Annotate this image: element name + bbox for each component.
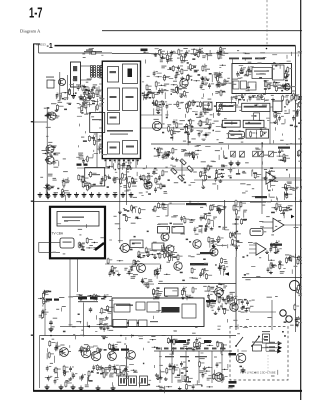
wire page edge xyxy=(300,0,302,400)
component cluster decoupling field xyxy=(78,171,110,191)
wire op-amp output xyxy=(276,177,300,179)
signal arrow output 3 xyxy=(277,349,281,354)
component cluster IC right pins xyxy=(142,84,152,100)
arrow left into bus xyxy=(225,272,230,276)
label dark TP201 xyxy=(141,49,148,52)
ground xyxy=(88,95,93,100)
ground xyxy=(236,161,241,166)
junction xyxy=(83,335,85,337)
label dark xyxy=(229,353,237,355)
annotation texture xyxy=(50,79,102,105)
component cluster module lower xyxy=(264,81,290,95)
delay line DL201 xyxy=(90,113,105,133)
IC U201 pin number xyxy=(114,160,116,162)
module A207b PLL xyxy=(228,131,244,138)
signal label luminance xyxy=(186,203,206,205)
ground xyxy=(82,192,87,197)
component cluster xyxy=(153,288,163,299)
module A201 block osc xyxy=(233,81,239,89)
svg-text:1-7: 1-7 xyxy=(29,5,43,21)
pin label xyxy=(84,164,88,166)
component cluster xyxy=(198,118,215,138)
wire bottom bus xyxy=(154,350,232,352)
wire right frame upper xyxy=(294,46,296,200)
filter Z202 xyxy=(85,168,105,187)
component cluster xyxy=(186,100,226,117)
output label xyxy=(269,342,275,343)
signal arrow output 1 xyxy=(278,341,282,346)
component cluster xyxy=(200,164,213,188)
wire IC left pin stub xyxy=(99,73,102,75)
component cluster xyxy=(113,173,143,189)
svg-text:TV CBA: TV CBA xyxy=(52,232,64,236)
svg-text:-1: -1 xyxy=(47,43,53,50)
ground xyxy=(53,192,58,197)
module A201 block mixer xyxy=(273,65,285,80)
component cluster xyxy=(137,247,151,259)
value label xyxy=(180,356,189,357)
wire op-amp out xyxy=(284,224,302,226)
resistor pack RP201 xyxy=(253,345,262,351)
filter Z205 xyxy=(152,243,164,250)
IC U201 pin number xyxy=(128,160,130,162)
transistor Q201 xyxy=(58,78,65,85)
component cluster in oscillator xyxy=(250,130,267,139)
annotation texture xyxy=(113,334,156,387)
wire xyxy=(66,75,68,100)
component cluster input filter xyxy=(79,87,104,106)
signal arrow output 2 xyxy=(278,345,282,350)
ground xyxy=(49,327,54,332)
capacitor pack C232 xyxy=(119,376,127,386)
component cluster xyxy=(39,309,49,319)
transistor Q224 xyxy=(236,353,246,363)
wire to IC pin 1 xyxy=(101,63,104,65)
annotation texture xyxy=(77,102,107,159)
filter Z204 xyxy=(172,227,184,234)
trimmer capacitor CT203 xyxy=(253,151,258,157)
component cluster xyxy=(180,213,217,227)
IC U201 output label xyxy=(126,146,134,148)
photo sensor glyph 2 xyxy=(264,339,268,341)
transistor Q222 xyxy=(215,373,223,381)
component cluster xyxy=(156,383,213,393)
module A207 block 3 xyxy=(182,304,196,318)
photo sensor U202 xyxy=(263,334,270,343)
ground xyxy=(59,385,64,390)
frame tick label 3 xyxy=(31,335,34,336)
wire xyxy=(171,336,173,352)
IC U201 sound label xyxy=(110,147,117,149)
component cluster labels under module xyxy=(231,93,302,104)
IC U201 part number label xyxy=(107,130,133,132)
label dark xyxy=(78,297,87,299)
annotation texture xyxy=(41,292,75,378)
wire into AV box xyxy=(70,296,112,298)
op-amp IC202 AFC xyxy=(266,172,276,184)
component cluster xyxy=(295,284,304,296)
wire IC left pin stub xyxy=(99,89,102,91)
wire xyxy=(126,168,128,206)
ground xyxy=(105,192,110,197)
component cluster xyxy=(282,183,298,200)
ground xyxy=(46,194,51,199)
module A201 block VIF xyxy=(252,68,272,79)
IC U201 block video amp xyxy=(123,88,138,111)
ground xyxy=(241,368,246,373)
filter Z203 label xyxy=(158,224,168,225)
wire right frame lower xyxy=(294,200,296,332)
transformer T201 primary xyxy=(90,65,92,77)
component cluster xyxy=(189,267,212,280)
resistor pack label xyxy=(252,342,262,343)
svg-text:PE-4 LYNC SIG 2.5D 4 TUBE: PE-4 LYNC SIG 2.5D 4 TUBE xyxy=(240,371,276,375)
wire xyxy=(59,72,61,100)
photo sensor glyph xyxy=(264,336,268,338)
resistor R201 xyxy=(90,52,96,54)
module A205 label xyxy=(224,122,237,124)
component cluster bottom rows xyxy=(155,361,228,383)
ground xyxy=(96,386,101,391)
component cluster xyxy=(63,365,78,388)
value label on bus xyxy=(196,348,201,350)
wire drop from module 2 xyxy=(77,259,79,293)
component cluster xyxy=(112,364,137,376)
component cluster xyxy=(229,232,241,251)
ground xyxy=(113,192,118,197)
label row xyxy=(78,301,98,302)
wire xyxy=(167,204,169,216)
label dark xyxy=(270,244,282,246)
wire xyxy=(270,106,273,108)
wire antenna input xyxy=(39,52,112,54)
component cluster detector parts xyxy=(152,81,189,99)
module A207 block 2 xyxy=(147,302,159,312)
transistor Q212 xyxy=(166,245,174,253)
wire top rule xyxy=(102,30,302,32)
component cluster xyxy=(81,101,104,114)
IC U201 pin number xyxy=(132,160,134,162)
deflection coil circle xyxy=(290,281,300,291)
component cluster xyxy=(97,318,112,332)
IC U201 sub label xyxy=(110,134,128,135)
wire left frame xyxy=(33,44,35,392)
component cluster xyxy=(118,205,145,222)
wire IC left pin stub xyxy=(99,143,102,145)
wire IC pin xyxy=(117,159,119,168)
wire IC left pin stub xyxy=(99,77,102,79)
wire IC left pin stub xyxy=(99,69,102,71)
wire xyxy=(44,298,46,336)
SAW filter label xyxy=(84,51,102,52)
wire IF link xyxy=(112,53,160,55)
IC U201 block LNC xyxy=(108,67,119,83)
component cluster xyxy=(214,165,227,183)
SAW filter electrode glyph 2 xyxy=(73,76,77,81)
wire vertical feed upper xyxy=(235,214,237,257)
component cluster xyxy=(42,149,60,166)
annotation texture xyxy=(108,160,153,198)
annotation texture xyxy=(230,148,303,200)
IC U201 pin number xyxy=(105,160,107,162)
label dark xyxy=(46,299,52,301)
wire xyxy=(69,297,71,327)
annotation texture xyxy=(82,48,103,58)
component cluster xyxy=(181,287,197,301)
IC U201 AFT label xyxy=(110,117,117,119)
annotation texture xyxy=(153,99,230,147)
wire xyxy=(269,107,271,144)
transistor Q221 xyxy=(127,351,136,360)
transistor Q207 xyxy=(144,181,152,189)
ground xyxy=(45,192,50,197)
component cluster xyxy=(294,304,302,327)
wire lower right bus xyxy=(242,277,302,279)
wire op-amp input xyxy=(262,221,273,223)
wire input feed xyxy=(39,241,60,243)
wire IF link segment 3 xyxy=(190,53,212,55)
module A207 title xyxy=(116,305,133,306)
resistor R201 value xyxy=(86,50,93,51)
wire xyxy=(141,127,211,129)
wire SAW to transformer lower xyxy=(81,79,92,81)
capacitor C230 xyxy=(49,320,52,325)
wire IF link segment 2 xyxy=(165,53,185,55)
component cluster xyxy=(139,174,153,189)
coil can label xyxy=(132,243,141,244)
transistor Q217 xyxy=(60,348,69,357)
wire IC left pin stub xyxy=(99,83,102,85)
ground xyxy=(111,386,116,391)
wire drop xyxy=(171,351,173,383)
wire drop xyxy=(185,351,187,383)
wire drop xyxy=(159,351,161,383)
shielded module A206 outline xyxy=(50,207,105,258)
component cluster xyxy=(79,343,117,354)
resonator X202 xyxy=(250,229,263,236)
value label on bus xyxy=(164,348,169,350)
annotation texture xyxy=(237,331,286,377)
module A203 band decoder xyxy=(216,102,235,111)
delay line label xyxy=(92,119,102,120)
wire xyxy=(158,283,236,285)
wire drop xyxy=(211,351,213,383)
control VR201 xyxy=(47,80,54,88)
wire xyxy=(96,133,98,168)
op-amp IC203 xyxy=(273,218,284,232)
wire xyxy=(83,303,85,336)
IC U201 IF processor outline xyxy=(102,61,140,158)
component cluster xyxy=(45,366,61,385)
module A207 block xyxy=(136,302,145,310)
arrow in module 2 xyxy=(137,322,139,324)
wire IC pin xyxy=(105,159,107,168)
wire stub 3 xyxy=(249,252,256,254)
IC U201 block detector xyxy=(123,64,138,84)
wire SAW ground lead xyxy=(73,87,75,94)
component cluster xyxy=(45,104,64,118)
wire stub 2 xyxy=(249,248,256,250)
wire xyxy=(141,114,162,116)
module A206 inner label xyxy=(62,217,84,218)
coil can L202 xyxy=(130,240,143,248)
capacitor pack C233 xyxy=(129,376,137,386)
SAW filter electrode glyph xyxy=(73,66,77,71)
annotation texture xyxy=(269,181,305,198)
control VR201 label xyxy=(46,77,54,78)
component cluster xyxy=(141,278,154,289)
module A201 block osc 2 xyxy=(241,81,247,89)
wire input drop xyxy=(38,44,40,53)
wire AV return xyxy=(60,325,112,327)
module A207 mute block 3 xyxy=(139,320,148,327)
frame tick label xyxy=(31,121,34,122)
annotation texture xyxy=(234,196,304,280)
crystal oscillator X204 xyxy=(246,129,269,138)
module A201 tuner unit outline xyxy=(232,64,292,94)
wire xyxy=(38,242,40,252)
filter Z203 comb xyxy=(158,227,170,234)
crystal X201 xyxy=(203,102,212,110)
wire IC left pin stub xyxy=(99,103,102,105)
buffer block xyxy=(254,113,260,120)
label xyxy=(255,196,267,198)
wire SAW to transformer xyxy=(81,65,92,67)
transistor Q219 xyxy=(91,351,101,361)
transformer T202 primary xyxy=(97,65,99,77)
IC U201 pin number xyxy=(109,160,111,162)
wire IF link segment 4 xyxy=(216,52,302,54)
ground xyxy=(129,192,134,197)
dashed module A210 sync output xyxy=(230,327,288,381)
module A201 block label xyxy=(254,71,269,72)
transistor Q213 xyxy=(193,240,201,248)
value label on bus xyxy=(212,348,217,350)
wire xyxy=(46,108,48,196)
annotation texture xyxy=(76,300,113,376)
ground xyxy=(71,385,76,390)
component cluster mid row xyxy=(156,147,227,161)
component cluster xyxy=(167,251,183,262)
transformer T202 secondary xyxy=(100,65,102,77)
component cluster op-amp feedback xyxy=(271,203,292,219)
output label xyxy=(269,350,275,351)
component cluster xyxy=(232,200,247,225)
connector label CN202 xyxy=(242,58,252,60)
wire supply bus xyxy=(194,179,302,181)
wire bus segment xyxy=(77,167,110,169)
arrow in module xyxy=(127,322,129,324)
component cluster xyxy=(218,257,228,275)
component cluster IC decoupling xyxy=(107,161,133,170)
wire drop from module xyxy=(69,259,71,297)
component cluster xyxy=(107,258,123,277)
wire xyxy=(224,200,226,230)
wire IC pin xyxy=(111,159,113,168)
IC U201 block output xyxy=(123,141,138,155)
module A207b label xyxy=(230,134,242,135)
component cluster inside module xyxy=(78,237,98,250)
wire input feed 2 xyxy=(39,251,60,253)
IC U202 label xyxy=(244,106,267,108)
ground xyxy=(74,192,79,197)
component cluster xyxy=(229,167,261,179)
annotation texture xyxy=(233,296,293,329)
component cluster xyxy=(153,169,168,194)
IC U202 control xyxy=(242,103,270,111)
wire dashed internal xyxy=(267,355,269,374)
value label on bus xyxy=(172,348,177,350)
module A205 prescaler xyxy=(222,120,240,127)
wire vertical feed xyxy=(235,257,237,330)
wire audio bus xyxy=(40,335,237,337)
resistor R202 xyxy=(68,89,70,95)
module A203 label xyxy=(219,105,234,107)
ground xyxy=(121,192,126,197)
trimmer capacitor CT201 xyxy=(231,151,236,157)
component cluster sync knot xyxy=(225,292,241,307)
transistor Q220 xyxy=(108,352,117,361)
component cluster xyxy=(149,245,169,259)
wire xyxy=(236,106,242,108)
transistor Q208 xyxy=(152,121,161,130)
label dark xyxy=(229,381,237,384)
component cluster xyxy=(79,374,93,387)
module A206 inner sublabel xyxy=(64,220,80,221)
component cluster xyxy=(152,202,168,212)
label dark xyxy=(229,385,235,387)
component cluster video drive xyxy=(44,174,70,201)
component cluster xyxy=(76,135,102,164)
SAW filter Z201 xyxy=(71,62,81,87)
ground xyxy=(38,192,43,197)
component cluster xyxy=(168,119,183,140)
module A206 inner block xyxy=(57,212,99,227)
wire IC pin xyxy=(123,159,125,168)
component cluster xyxy=(184,119,195,146)
wire output 2 xyxy=(262,347,278,349)
filter Z204 label xyxy=(173,224,183,225)
connector label CN201 xyxy=(229,58,239,60)
label row dark 2 xyxy=(204,340,211,343)
wire op-amp input 2 xyxy=(262,227,273,229)
label dark xyxy=(111,349,119,351)
wire dashed feed line xyxy=(266,0,268,46)
wire IF output drop xyxy=(119,159,121,243)
ground xyxy=(71,93,76,98)
label xyxy=(200,252,213,254)
IC U201 block label xyxy=(110,71,117,73)
ground xyxy=(229,161,234,166)
annotation texture xyxy=(153,297,232,389)
annotation texture xyxy=(228,50,304,98)
diode bridge D201-D204 xyxy=(171,159,194,182)
label dark xyxy=(54,299,59,301)
junction xyxy=(120,335,122,337)
transistor Q204 xyxy=(48,112,56,120)
IC U201 block sound xyxy=(108,142,120,154)
component cluster tuner agc xyxy=(286,94,303,121)
component cluster xyxy=(274,111,284,125)
capacitor pack C234 xyxy=(140,376,148,386)
wire IC left pin stub xyxy=(99,127,102,129)
photo sensor label xyxy=(262,331,270,332)
ground xyxy=(45,385,50,390)
transformer T201 secondary xyxy=(93,65,95,77)
value label on bus xyxy=(180,348,185,350)
annotation texture xyxy=(109,207,154,255)
component cluster xyxy=(76,294,108,302)
